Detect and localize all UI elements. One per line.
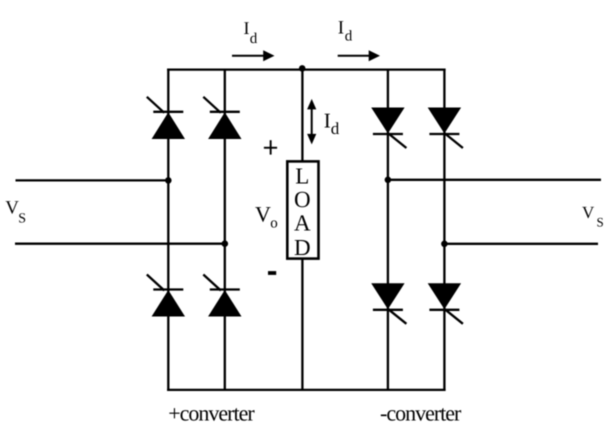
svg-text:+converter: +converter bbox=[168, 400, 255, 425]
svg-text:d: d bbox=[331, 119, 340, 138]
svg-text:S: S bbox=[18, 212, 26, 227]
svg-text:o: o bbox=[270, 215, 278, 231]
svg-text:I: I bbox=[324, 108, 331, 132]
svg-text:L: L bbox=[295, 163, 309, 188]
svg-text:d: d bbox=[250, 31, 258, 47]
svg-text:-converter: -converter bbox=[380, 400, 462, 425]
svg-text:A: A bbox=[294, 210, 311, 235]
svg-text:V: V bbox=[255, 202, 271, 227]
svg-text:S: S bbox=[597, 214, 604, 229]
svg-text:D: D bbox=[294, 235, 311, 260]
svg-text:I: I bbox=[244, 18, 250, 38]
svg-text:d: d bbox=[345, 28, 353, 44]
svg-text:V: V bbox=[5, 197, 19, 218]
svg-text:I: I bbox=[338, 17, 344, 38]
svg-text:O: O bbox=[294, 187, 311, 212]
svg-text:V: V bbox=[582, 203, 595, 222]
